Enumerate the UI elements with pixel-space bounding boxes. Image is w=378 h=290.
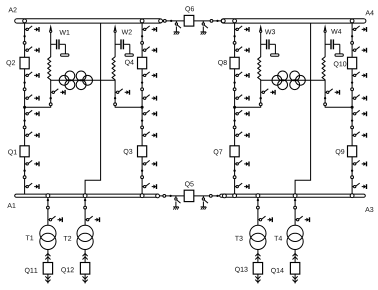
- label A2: [8, 7, 16, 12]
- earth plate of W2 capacitor: [125, 54, 133, 56]
- wire vertical line W2: [114, 30, 116, 58]
- wire vertical line W3: [260, 30, 262, 58]
- node bus junction col-Q10Q9 top: [350, 19, 354, 23]
- disconnector with drive, W2: [115, 89, 129, 95]
- disconnector with drive, W3: [261, 89, 275, 95]
- circuit breaker Q13: [253, 263, 262, 275]
- label Q9: [336, 149, 345, 155]
- node bus junction col-Q2Q1 top: [23, 19, 27, 23]
- disconnector with drive, col-Q8Q7: [235, 183, 249, 189]
- disconnector with drive, col-Q4Q3: [142, 160, 156, 166]
- node bus junction col-Q10Q9 bottom: [350, 194, 354, 198]
- node dot col-Q8Q7 y36.3: [233, 35, 235, 37]
- line arrow W4: [324, 24, 326, 30]
- label W2: [122, 30, 132, 35]
- coupling capacitor of W2: [115, 39, 130, 54]
- transformer T3: [250, 225, 266, 249]
- disconnector with drive, col-Q4Q3: [142, 132, 156, 138]
- node circle T2: [84, 206, 87, 209]
- node junction dot col-Q2Q1 stub: [23, 106, 26, 109]
- disconnector with drive, col-Q8Q7: [235, 26, 249, 32]
- disconnector with drive, col-Q2Q1: [25, 183, 39, 189]
- label Q13: [235, 267, 248, 273]
- reactor coil (wavy) of W2: [112, 57, 115, 80]
- node circle A1 right end: [156, 194, 160, 198]
- node junction dot col-Q8Q7 stub: [233, 106, 236, 109]
- wire stub col-Q2Q1 to W1: [25, 106, 51, 108]
- node dot col-Q8Q7 y120.6: [233, 119, 235, 121]
- node dot col-Q4Q3 y170.7: [141, 170, 143, 172]
- coupling capacitor of W3: [261, 39, 276, 54]
- disconnector with drive, T4: [295, 216, 309, 222]
- wire branch T1: [47, 196, 49, 226]
- node dot col-Q4Q3 y36.3: [141, 35, 143, 37]
- wire vertical line W4: [324, 30, 326, 58]
- earth plate of W3 capacitor: [271, 54, 279, 56]
- node junction dot col-Q10Q9 stub: [351, 106, 354, 109]
- busbar A3: [220, 194, 366, 197]
- disconnector with drive, col-Q10Q9: [352, 132, 366, 138]
- chevrons up above Q14: [293, 254, 298, 260]
- node circle W4: [324, 103, 327, 106]
- label W4: [331, 29, 341, 34]
- disconnector with drive, col-Q2Q1: [25, 72, 39, 78]
- transformer T1: [40, 225, 56, 249]
- node circle col-Q10Q9 y127.4: [351, 126, 354, 129]
- node dot col-Q2Q1 y36.3: [23, 35, 25, 37]
- node circle W2 top: [114, 30, 116, 32]
- disconnector with drive, col-Q4Q3: [142, 95, 156, 101]
- disconnector with drive, col-Q8Q7: [235, 160, 249, 166]
- label Q1: [8, 150, 17, 156]
- wire stub W4 to col-Q10Q9: [325, 106, 352, 108]
- disconnector with drive, col-Q2Q1: [25, 132, 39, 138]
- node dot W1: [50, 97, 52, 99]
- node circle W1: [49, 103, 52, 106]
- node circle col-Q2Q1 y127.4: [23, 126, 26, 129]
- node dot col-Q2Q1 y120.6: [23, 119, 25, 121]
- disconnector with drive, col-Q8Q7: [235, 110, 249, 116]
- node bus junction col-Q4Q3 top: [140, 19, 144, 23]
- node circle right of Q5: [209, 195, 212, 198]
- wire vertical line W1: [50, 30, 52, 58]
- label Q14: [271, 268, 284, 274]
- label T1: [26, 235, 34, 240]
- label Q8: [218, 60, 227, 66]
- label Q10: [334, 61, 347, 67]
- earth plate of W4 capacitor: [335, 54, 343, 56]
- busbar A4: [221, 19, 366, 23]
- node circle T1: [47, 206, 50, 209]
- three-winding voltage transformers right W3-W4: [272, 71, 305, 90]
- node circle col-Q8Q7 y127.4: [233, 126, 236, 129]
- wire link W3-W4 through voltage transformers: [261, 79, 325, 81]
- node dot col-Q10Q9 y120.6: [351, 119, 353, 121]
- node bus junction T2: [83, 194, 87, 198]
- transformer T2: [77, 225, 93, 249]
- node dot T3: [257, 199, 259, 201]
- node circle W4 top: [324, 30, 326, 32]
- node circle col-Q8Q7 y89.3: [233, 88, 236, 91]
- node dot T2: [84, 199, 86, 201]
- circuit breaker Q2: [20, 57, 29, 69]
- node dot right of Q5: [216, 195, 218, 197]
- disconnector with drive, col-Q10Q9: [352, 47, 366, 53]
- disconnector with drive, col-Q10Q9: [352, 160, 366, 166]
- label Q4: [125, 60, 134, 66]
- node dot left of Q6: [170, 20, 172, 22]
- node dot col-Q10Q9 y36.3: [351, 35, 353, 37]
- wire stub W2 to col-Q4Q3: [115, 106, 142, 108]
- circuit breaker Q11: [43, 263, 52, 275]
- disconnector with drive, T1: [48, 216, 62, 222]
- node dot col-Q8Q7 y170.7: [233, 170, 235, 172]
- circuit breaker Q4: [138, 57, 147, 69]
- node circle col-Q4Q3 y42.9: [141, 42, 144, 45]
- wire vertical col-Q10Q9: [351, 21, 353, 195]
- earth plate of W1 capacitor: [61, 54, 69, 56]
- label Q12: [61, 267, 74, 273]
- node dot T4: [294, 199, 296, 201]
- line arrow W2: [114, 24, 116, 30]
- node circle col-Q4Q3 y127.4: [141, 126, 144, 129]
- coupling capacitor of W4: [325, 39, 340, 54]
- wire bus tie A1-A3 through Q5: [159, 195, 220, 197]
- wire link W1-W2 through voltage transformers: [51, 79, 115, 81]
- circuit breaker Q5: [184, 190, 194, 201]
- disconnector with drive, col-Q2Q1: [25, 110, 39, 116]
- node dot col-Q8Q7 y82.6: [233, 81, 235, 83]
- disconnector with drive, col-Q10Q9: [352, 95, 366, 101]
- disconnector with drive, col-Q2Q1: [25, 26, 39, 32]
- node circle A2 right end: [159, 19, 163, 23]
- node dot col-Q10Q9 y170.7: [351, 170, 353, 172]
- wire branch T4: [294, 196, 296, 226]
- transformer T4: [287, 225, 303, 249]
- node circle col-Q10Q9 y177.2: [351, 176, 354, 179]
- disconnector with drive, col-Q4Q3: [142, 183, 156, 189]
- node bus junction col-Q4Q3 bottom: [140, 194, 144, 198]
- disconnector with drive, col-Q10Q9: [352, 72, 366, 78]
- chevrons down below Q14: [293, 276, 298, 282]
- chevrons up above Q13: [255, 254, 260, 260]
- reactor coil (wavy) of W3: [258, 57, 261, 80]
- earthing switch right of Q6: [201, 21, 208, 35]
- node dot col-Q2Q1 y170.7: [23, 170, 25, 172]
- node circle col-Q10Q9 y89.3: [351, 88, 354, 91]
- disconnector with drive, col-Q10Q9: [352, 110, 366, 116]
- circuit breaker Q6: [184, 15, 194, 26]
- earthing switch right of Q5: [201, 196, 208, 210]
- node circle W3: [259, 103, 262, 106]
- earthing switch left of Q6: [174, 21, 181, 35]
- disconnector with drive, col-Q4Q3: [142, 47, 156, 53]
- circuit breaker Q14: [290, 263, 299, 275]
- wire bus tie A2-A4 through Q6: [162, 20, 221, 22]
- node circle W1 top: [50, 30, 52, 32]
- disconnector with drive, col-Q8Q7: [235, 47, 249, 53]
- three-winding voltage transformers left W1-W2: [59, 71, 92, 90]
- wire vertical col-Q4Q3: [141, 21, 143, 195]
- node bus junction T4: [293, 194, 297, 198]
- label A3: [365, 207, 373, 212]
- node dot W3: [260, 97, 262, 99]
- label A4: [365, 10, 373, 15]
- disconnector with drive, col-Q4Q3: [142, 26, 156, 32]
- node circle left of Q6: [163, 20, 166, 23]
- node dot W2: [114, 97, 116, 99]
- disconnector with drive, col-Q2Q1: [25, 95, 39, 101]
- label T2: [64, 236, 72, 241]
- reactor coil (wavy) of W1: [48, 57, 51, 80]
- disconnector with drive, col-Q8Q7: [235, 95, 249, 101]
- node circle T3: [257, 206, 260, 209]
- coupling capacitor of W1: [51, 39, 66, 54]
- node circle A3 left end: [223, 194, 227, 198]
- label Q3: [124, 149, 133, 155]
- node circle col-Q4Q3 y177.2: [141, 176, 144, 179]
- wire A2 to A1 bypass (left): [85, 21, 101, 195]
- reactor coil (wavy) of W4: [322, 57, 325, 80]
- line arrow W3: [260, 24, 262, 30]
- wire A4 to A3 bypass (right): [295, 21, 311, 195]
- disconnector with drive, col-Q10Q9: [352, 26, 366, 32]
- node circle col-Q2Q1 y177.2: [23, 176, 26, 179]
- chevrons down below Q12: [83, 276, 88, 282]
- circuit breaker Q8: [230, 57, 239, 69]
- busbar A1: [15, 194, 159, 197]
- node dot left of Q5: [169, 195, 171, 197]
- chevrons down below Q11: [45, 276, 50, 282]
- node circle col-Q8Q7 y177.2: [233, 176, 236, 179]
- wire vertical col-Q2Q1: [24, 21, 26, 195]
- node dot W4: [324, 97, 326, 99]
- label A1: [7, 203, 15, 208]
- label Q5: [185, 181, 194, 187]
- disconnector with drive, col-Q8Q7: [235, 132, 249, 138]
- chevrons up above Q12: [83, 254, 88, 260]
- node circle col-Q10Q9 y42.9: [351, 42, 354, 45]
- label Q6: [185, 6, 194, 12]
- label T3: [235, 236, 243, 241]
- disconnector with drive, col-Q4Q3: [142, 110, 156, 116]
- node dot col-Q4Q3 y120.6: [141, 119, 143, 121]
- circuit breaker Q9: [348, 146, 357, 157]
- node circle right of Q6: [210, 20, 213, 23]
- label Q11: [25, 268, 38, 274]
- node circle col-Q2Q1 y42.9: [23, 42, 26, 45]
- disconnector with drive, col-Q2Q1: [25, 47, 39, 53]
- chevrons down below Q13: [255, 276, 260, 282]
- node circle W2: [114, 103, 117, 106]
- disconnector with drive, T3: [258, 216, 272, 222]
- wire branch T3: [257, 196, 259, 226]
- node bus junction col-Q8Q7 bottom: [233, 194, 237, 198]
- label Q7: [214, 149, 223, 155]
- wire vertical col-Q8Q7: [234, 21, 236, 195]
- node circle col-Q4Q3 y89.3: [141, 88, 144, 91]
- disconnector with drive, col-Q2Q1: [25, 160, 39, 166]
- node circle col-Q8Q7 y42.9: [233, 42, 236, 45]
- node circle W3 top: [260, 30, 262, 32]
- wire stub col-Q8Q7 to W3: [235, 106, 261, 108]
- node circle left of Q5: [163, 195, 166, 198]
- circuit breaker Q10: [348, 57, 357, 69]
- label T4: [274, 236, 282, 241]
- node dot col-Q4Q3 y82.6: [141, 81, 143, 83]
- busbar A2: [15, 19, 163, 23]
- disconnector with drive, W1: [51, 89, 65, 95]
- line arrow W1: [50, 24, 52, 30]
- chevrons up above Q11: [45, 254, 50, 260]
- disconnector with drive, col-Q10Q9: [352, 183, 366, 189]
- disconnector with drive, col-Q8Q7: [235, 72, 249, 78]
- node bus junction T3: [256, 194, 260, 198]
- circuit breaker Q7: [230, 146, 239, 157]
- disconnector with drive, W4: [325, 89, 339, 95]
- node bus junction T1: [46, 194, 50, 198]
- node junction dot col-Q4Q3 stub: [141, 106, 144, 109]
- label W3: [265, 29, 275, 34]
- circuit breaker Q12: [80, 263, 89, 275]
- node dot col-Q10Q9 y82.6: [351, 81, 353, 83]
- label W1: [59, 30, 69, 35]
- disconnector with drive, col-Q4Q3: [142, 72, 156, 78]
- earthing switch left of Q5: [173, 196, 180, 210]
- wire branch T2: [84, 196, 86, 226]
- node dot T1: [47, 199, 49, 201]
- circuit breaker Q1: [20, 146, 29, 157]
- disconnector with drive, T2: [85, 216, 99, 222]
- node circle T4: [294, 206, 297, 209]
- circuit breaker Q3: [138, 146, 147, 157]
- node dot col-Q2Q1 y82.6: [23, 81, 25, 83]
- node dot right of Q6: [216, 20, 218, 22]
- node bus junction col-Q8Q7 top: [233, 19, 237, 23]
- node circle A4 left end: [221, 19, 225, 23]
- node circle col-Q2Q1 y89.3: [23, 88, 26, 91]
- label Q2: [6, 60, 15, 66]
